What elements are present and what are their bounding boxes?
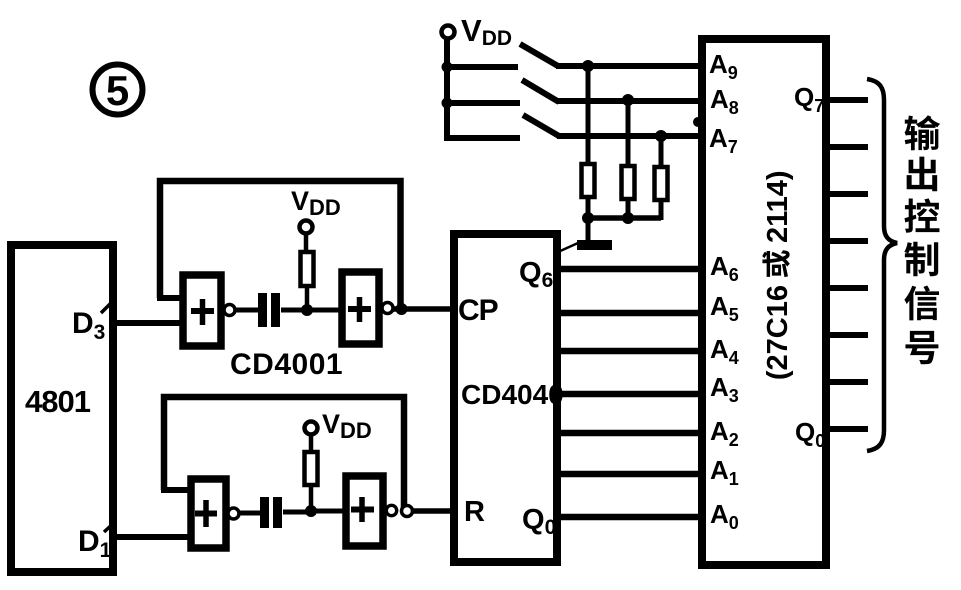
svg-text:4801: 4801 bbox=[25, 384, 91, 419]
wire R2 to bus bbox=[626, 201, 631, 220]
wire feedback loop upper oscillator bbox=[160, 181, 401, 309]
wire Q6 to A6 bbox=[561, 266, 701, 273]
capacitor C1 bbox=[258, 293, 280, 327]
switch S1 blade bbox=[520, 44, 558, 66]
pin D1 label bbox=[78, 521, 116, 562]
VDD terminal upper oscillator bbox=[291, 186, 341, 234]
resistor pulldown 2 bbox=[622, 166, 635, 199]
figure number 5 bbox=[93, 65, 143, 115]
bubble U1b output bbox=[382, 303, 393, 314]
gate U1b (CD4001) bbox=[342, 272, 379, 344]
wire output stub 2 bbox=[827, 144, 868, 150]
gate U2a (CD4001) bbox=[191, 479, 226, 548]
bubble U2a output bbox=[228, 508, 239, 519]
VDD terminal lower oscillator bbox=[305, 409, 372, 443]
wire U2b to R input bbox=[412, 508, 452, 514]
bubble U1a output bbox=[224, 305, 235, 316]
node A9 pulldown bbox=[582, 60, 594, 72]
node ring U2b out bbox=[402, 506, 413, 517]
wire output stub 7 bbox=[827, 379, 868, 385]
wire pulldown 3 bbox=[659, 136, 664, 166]
wire R3 to bus bbox=[659, 202, 664, 220]
resistor lower oscillator bbox=[305, 452, 318, 485]
bubble U2b output bbox=[386, 505, 396, 515]
wire S1 to A9 bbox=[556, 63, 701, 69]
gate U2b (CD4001) bbox=[346, 476, 383, 546]
wire Q0 to A0 bbox=[561, 514, 701, 521]
wire VDD to R bbox=[304, 233, 309, 252]
switch S3 blade bbox=[523, 115, 559, 136]
wire to switch S2 bbox=[447, 100, 520, 106]
wire S3 to A7 bbox=[557, 133, 701, 139]
wire output stub 8 bbox=[827, 426, 868, 432]
wire output stub 5 bbox=[827, 285, 868, 291]
node A8 pulldown bbox=[622, 94, 634, 106]
wire output stub 1 bbox=[827, 97, 868, 103]
resistor pulldown 3 bbox=[655, 167, 668, 200]
wire output stub 4 bbox=[827, 238, 868, 244]
node artifact chip edge bbox=[693, 117, 703, 127]
wire S2 to A8 bbox=[557, 98, 701, 104]
wire C2 to node bbox=[283, 510, 306, 515]
wire node to U2b bbox=[316, 509, 345, 514]
wire loop to U2a input bbox=[161, 487, 190, 493]
wire VDD vertical bbox=[444, 38, 450, 141]
wire R1 to bus bbox=[586, 199, 591, 220]
capacitor C2 bbox=[260, 497, 282, 528]
node A7 pulldown bbox=[655, 130, 667, 142]
resistor pulldown 1 bbox=[582, 164, 595, 197]
wire to switch S1 bbox=[447, 64, 518, 70]
wire node to U1b bbox=[312, 308, 341, 313]
svg-text:(27C16: (27C16 bbox=[762, 285, 794, 380]
wire output stub 6 bbox=[827, 332, 868, 338]
wire pulldown 2 bbox=[626, 100, 631, 165]
node junction upper bbox=[301, 304, 313, 316]
svg-text:2114): 2114) bbox=[762, 170, 794, 243]
label output control signal (Chinese) bbox=[904, 115, 940, 364]
node bus 1 bbox=[582, 212, 594, 224]
resistor upper oscillator bbox=[301, 252, 314, 286]
wire bubble to C2 bbox=[239, 511, 260, 516]
wire VDD to R bbox=[309, 434, 314, 452]
wire C1 to node bbox=[281, 308, 302, 313]
wire loop to U1a input bbox=[157, 295, 181, 301]
switch S2 blade bbox=[522, 80, 559, 102]
wire bubble to C1 bbox=[235, 308, 258, 313]
IC 27C16/2114 box bbox=[702, 39, 826, 565]
pin D3 label bbox=[72, 300, 114, 344]
node junction U1b out bbox=[396, 303, 408, 315]
wire to switch S3 bbox=[447, 135, 520, 141]
node VDD branch 1 bbox=[442, 62, 453, 73]
svg-text:CD4001: CD4001 bbox=[230, 348, 343, 381]
wire R to node bbox=[309, 487, 314, 507]
svg-text:CP: CP bbox=[458, 294, 498, 327]
IC CD4040 box bbox=[454, 234, 564, 562]
brace output group bbox=[867, 79, 897, 451]
wire to ground bbox=[586, 218, 591, 241]
wire R to node bbox=[305, 288, 310, 308]
svg-text:5: 5 bbox=[106, 67, 129, 114]
ground bbox=[558, 240, 612, 252]
node VDD branch 2 bbox=[442, 98, 453, 109]
wire D1 to gate U2a bbox=[113, 534, 190, 540]
wire ground bus bbox=[588, 215, 661, 221]
gate U1a (CD4001) bbox=[183, 275, 221, 346]
node junction lower bbox=[305, 505, 317, 517]
svg-text:CD4040: CD4040 bbox=[461, 379, 564, 410]
wire Q5 to A5 bbox=[561, 310, 701, 317]
wire U1b to CP bbox=[393, 306, 452, 312]
wire Q3 to A3 bbox=[561, 391, 701, 398]
svg-text:R: R bbox=[464, 496, 485, 528]
wire Q4 to A4 bbox=[561, 348, 701, 355]
wire Q1 to A1 bbox=[561, 471, 701, 478]
wire output stub 3 bbox=[827, 191, 868, 197]
IC 4801 box bbox=[11, 245, 113, 572]
wire pulldown 1 bbox=[586, 66, 591, 163]
node bus 2 bbox=[622, 212, 634, 224]
wire D3 to gate U1a bbox=[113, 320, 181, 326]
wire Q2 to A2 bbox=[561, 430, 701, 437]
wire feedback loop lower oscillator bbox=[164, 397, 404, 508]
VDD terminal top bbox=[442, 13, 513, 50]
